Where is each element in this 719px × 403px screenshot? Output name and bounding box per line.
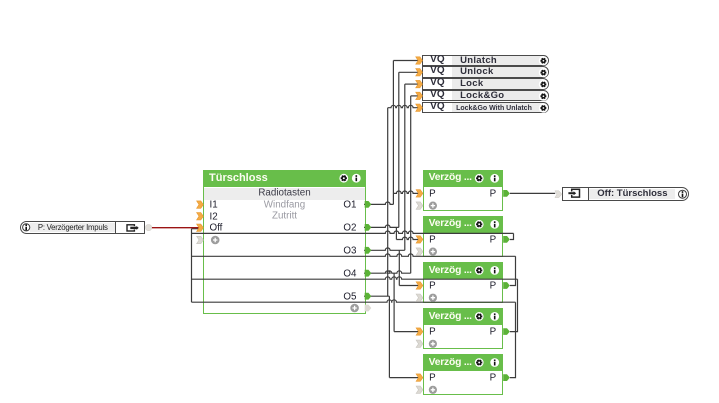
wire into VQ3 bbox=[405, 83, 419, 85]
wire Verzög2 out hook bbox=[510, 233, 514, 239]
wire O1 to riser bbox=[364, 202, 393, 204]
page connector P: Verzögerter Impuls bbox=[20, 221, 146, 234]
output nub O2 bbox=[365, 224, 372, 231]
input arrow P Verzögerung 5 bbox=[416, 374, 423, 381]
wire to Verzög3 P bbox=[399, 285, 419, 287]
input P of Verzögerung 3 bbox=[429, 280, 436, 291]
spare input arrow Verzögerung 5 bbox=[416, 386, 423, 393]
output nub O3 bbox=[365, 247, 372, 254]
wire into VQ4 bbox=[411, 95, 419, 97]
add-input plus Verzögerung 2 bbox=[429, 248, 437, 256]
input nub memory connector bbox=[555, 191, 562, 198]
output O4 bbox=[343, 268, 356, 279]
wire Verzög5 out hook bbox=[510, 302, 516, 377]
wire riser O2/VQ2 bbox=[398, 72, 400, 227]
input arrow I2 bbox=[197, 213, 204, 220]
input arrow P Verzögerung 4 bbox=[416, 328, 423, 335]
gear icon VQ 3 bbox=[539, 80, 548, 89]
delay block Verzögerung 5 bbox=[423, 354, 504, 395]
output P of Verzögerung 2 bbox=[490, 234, 497, 245]
input arrow I1 bbox=[197, 201, 204, 208]
output O5 bbox=[343, 291, 356, 302]
gear icon VQ 2 bbox=[539, 68, 548, 77]
wire drop to Verzög3 bbox=[398, 250, 400, 285]
gear icon Türschloss bbox=[339, 174, 348, 183]
wire loopback 1 bbox=[192, 231, 514, 233]
input I2 bbox=[210, 211, 218, 222]
spare output nub bbox=[365, 305, 372, 312]
wire into VQ5 bbox=[388, 105, 419, 107]
info icon Verzögerung 2 bbox=[490, 220, 499, 229]
add-input plus Verzögerung 3 bbox=[429, 294, 437, 302]
output O3 bbox=[343, 245, 356, 256]
info icon Verzögerung 3 bbox=[490, 266, 499, 275]
input P of Verzögerung 1 bbox=[429, 188, 436, 199]
wire loopback 2 bbox=[192, 254, 516, 256]
output nub O5 bbox=[365, 293, 372, 300]
gear icon Verzögerung 3 bbox=[475, 266, 484, 275]
spare input arrow Verzögerung 4 bbox=[416, 340, 423, 347]
gear icon Verzögerung 1 bbox=[475, 174, 484, 183]
add-input plus Verzögerung 4 bbox=[429, 340, 437, 348]
output nub P Verzögerung 4 bbox=[503, 328, 510, 335]
info icon page connector bbox=[23, 224, 30, 231]
label Radiotasten bbox=[258, 188, 310, 199]
virtual output VQ Unlock bbox=[422, 66, 549, 77]
spare input arrow Verzögerung 1 bbox=[416, 202, 423, 209]
virtual output VQ Lock&amp;Go bbox=[422, 90, 549, 101]
wire to Verzög5 P bbox=[389, 377, 419, 379]
wire Verzög1 out to memory connector bbox=[510, 192, 555, 194]
input arrow VQ 2 bbox=[416, 69, 423, 76]
memory connector Off: Türschloss bbox=[562, 187, 689, 201]
gear icon Verzögerung 2 bbox=[475, 220, 484, 229]
wire Verzög4 out hook bbox=[510, 279, 518, 331]
off bus stub bbox=[192, 228, 200, 230]
wire riser O3/VQ3 bbox=[404, 84, 406, 250]
output nub page connector bbox=[146, 225, 152, 231]
info icon Türschloss bbox=[352, 174, 361, 183]
gear icon Verzögerung 4 bbox=[475, 312, 484, 321]
delay block Verzögerung 4 bbox=[423, 308, 504, 349]
input arrow P Verzögerung 3 bbox=[416, 282, 423, 289]
add-input plus Verzögerung 1 bbox=[429, 202, 437, 210]
input Off bbox=[210, 223, 223, 234]
delay block Verzögerung 1 bbox=[423, 170, 504, 211]
info icon Verzögerung 5 bbox=[490, 358, 499, 367]
wire into VQ2 bbox=[399, 71, 419, 73]
info icon Verzögerung 4 bbox=[490, 312, 499, 321]
wire O2 to riser bbox=[364, 225, 399, 227]
delay block Verzögerung 3 bbox=[423, 262, 504, 303]
output O2 bbox=[343, 222, 356, 233]
wire loopback 3 bbox=[192, 277, 518, 279]
delay block Verzögerung 2 bbox=[423, 216, 504, 257]
output nub O1 bbox=[365, 201, 372, 208]
label Zutritt bbox=[272, 211, 297, 222]
wire to Verzög2 P bbox=[396, 237, 419, 239]
wire into VQ1 bbox=[393, 60, 419, 62]
wire O4 to riser bbox=[364, 271, 411, 273]
input arrow VQ 5 bbox=[416, 104, 423, 111]
input arrow VQ 4 bbox=[416, 92, 423, 99]
input arrow VQ 3 bbox=[416, 80, 423, 87]
wire to Verzög1 P bbox=[393, 191, 419, 193]
exit-page icon bbox=[127, 225, 139, 231]
output P of Verzögerung 5 bbox=[490, 373, 497, 384]
wire riser O1/VQ1 bbox=[392, 61, 394, 205]
label Windfang bbox=[264, 199, 305, 210]
add-input plus bbox=[211, 236, 220, 245]
spare input arrow Verzögerung 2 bbox=[416, 248, 423, 255]
spare input arrow Verzögerung 3 bbox=[416, 294, 423, 301]
enter-page icon bbox=[568, 189, 579, 197]
output nub P Verzögerung 5 bbox=[503, 374, 510, 381]
info icon memory connector bbox=[679, 190, 687, 198]
output nub O4 bbox=[365, 270, 372, 277]
wire to Verzög4 P bbox=[394, 331, 419, 333]
input P of Verzögerung 4 bbox=[429, 326, 436, 337]
wire drop to Verzög5 bbox=[388, 296, 390, 377]
add-input plus Verzögerung 5 bbox=[429, 386, 437, 394]
wire O5 to riser bbox=[364, 295, 389, 297]
wire riser O4/VQ4 bbox=[410, 96, 412, 273]
output nub P Verzögerung 1 bbox=[503, 190, 510, 197]
spare input arrow bbox=[197, 236, 204, 243]
output P of Verzögerung 3 bbox=[490, 280, 497, 291]
virtual output VQ Lock&amp;Go With Unlatch bbox=[422, 102, 549, 113]
off bus riser bbox=[191, 229, 193, 303]
gear icon VQ 5 bbox=[539, 103, 548, 112]
wire drop to Verzög2 bbox=[395, 227, 397, 239]
selected wire P connector to Off input (red) bbox=[152, 227, 200, 229]
wire loopback 4 bbox=[192, 300, 516, 302]
wire riser O5/VQ5 bbox=[387, 108, 389, 297]
gear icon Verzögerung 5 bbox=[475, 358, 484, 367]
virtual output VQ Lock bbox=[422, 78, 549, 89]
virtual output VQ Unlatch bbox=[422, 55, 549, 66]
input arrow P Verzögerung 2 bbox=[416, 236, 423, 243]
input I1 bbox=[210, 199, 218, 210]
add-output plus bbox=[350, 304, 359, 313]
input P of Verzögerung 5 bbox=[429, 373, 436, 384]
function block Türschloss bbox=[203, 170, 366, 315]
output nub P Verzögerung 2 bbox=[503, 236, 510, 243]
gear icon VQ 4 bbox=[539, 92, 548, 101]
output nub P Verzögerung 3 bbox=[503, 282, 510, 289]
wire O3 to riser bbox=[364, 248, 405, 250]
input arrow P Verzögerung 1 bbox=[416, 190, 423, 197]
input P of Verzögerung 2 bbox=[429, 234, 436, 245]
gear icon VQ 1 bbox=[539, 56, 548, 65]
output P of Verzögerung 1 bbox=[490, 188, 497, 199]
output O1 bbox=[343, 199, 356, 210]
input arrow VQ 1 bbox=[416, 57, 423, 64]
wire drop to Verzög4 bbox=[393, 273, 395, 331]
info icon Verzögerung 1 bbox=[490, 174, 499, 183]
wire Verzög3 out hook bbox=[510, 256, 516, 285]
output P of Verzögerung 4 bbox=[490, 326, 497, 337]
input arrow Off bbox=[197, 224, 204, 231]
